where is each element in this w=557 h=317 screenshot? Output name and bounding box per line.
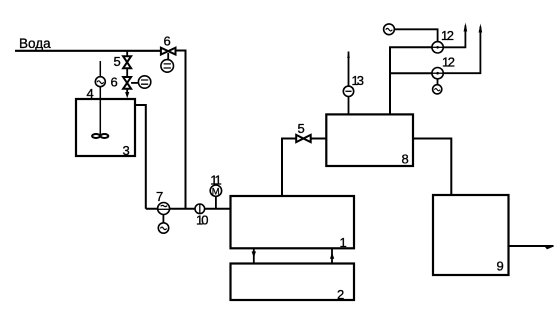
- wire tank 1 top riser to valve 5 right: [282, 139, 296, 197]
- svg-text:7: 7: [156, 189, 163, 204]
- wire riser from tank 8 top with instrument 13: [348, 52, 350, 115]
- label 4: [87, 86, 94, 101]
- wire instrument 12 lower to up arrow (right): [443, 27, 480, 74]
- label 12 lower: [442, 55, 455, 70]
- svg-text:12: 12: [442, 55, 455, 70]
- arrow up (right): [479, 24, 483, 33]
- wire vessel 3 outlet to main pipe: [135, 105, 146, 209]
- wire main horizontal pipe to tank 1: [146, 208, 231, 210]
- wire stub valve 6 to actuator: [167, 53, 169, 60]
- tank 9: [433, 195, 509, 275]
- label 6 (top valve): [164, 34, 171, 49]
- label 12 upper: [441, 28, 454, 43]
- svg-text:12: 12: [441, 28, 454, 43]
- arrow up (left): [464, 23, 468, 32]
- label 13: [352, 73, 364, 88]
- svg-text:6: 6: [111, 75, 118, 90]
- label 5 (right valve): [298, 121, 305, 136]
- instrument 10 (flow device on main pipe): [195, 204, 205, 214]
- instrument actuator circle of valve 6 left: [138, 76, 150, 88]
- arrow into vessel 3: [125, 92, 129, 98]
- instrument tilde circle (top left of 12 group): [384, 24, 395, 35]
- wire header corner riser down to main pipe: [175, 51, 186, 209]
- instrument below 7 (tilde circle): [158, 223, 168, 233]
- arrow tip riser 13: [347, 52, 350, 59]
- wire valve 6 left to its actuator: [131, 82, 138, 84]
- vessel 3 (mixing tank): [76, 99, 135, 156]
- instrument actuator circle of valve 6 top: [161, 60, 174, 73]
- wire tank 9 outlet with arrow: [509, 246, 555, 249]
- motor M4 support line: [99, 61, 101, 136]
- svg-text:2: 2: [337, 287, 344, 302]
- wire stub motor 11 to main pipe: [215, 196, 217, 208]
- svg-text:3: 3: [123, 143, 130, 158]
- instrument 7 (on main pipe): [158, 203, 170, 215]
- motor 4 circle: [95, 77, 105, 87]
- svg-text:M: M: [212, 186, 220, 197]
- label 10: [196, 213, 208, 228]
- label 7: [156, 189, 163, 204]
- label 9: [497, 259, 504, 274]
- valve 6 (top, on water header): [161, 48, 176, 55]
- valve 5 (left, vertical): [123, 56, 131, 68]
- label Вода (water inlet): [19, 36, 51, 51]
- wire feed drop from header to vessel 3: [126, 51, 128, 93]
- svg-text:10: 10: [196, 213, 208, 228]
- label 2: [337, 287, 344, 302]
- wire instrument 12 upper to up arrow: [443, 26, 465, 48]
- label 5 (left valve): [114, 54, 121, 69]
- wire stub below instrument 7: [162, 215, 164, 223]
- wire valve 5 right to tank 8: [311, 138, 327, 140]
- wire connector tank1-tank2 left with arrow: [252, 248, 256, 263]
- svg-text:13: 13: [352, 73, 364, 88]
- agitator impeller: [92, 134, 108, 138]
- svg-text:8: 8: [402, 152, 409, 167]
- label 6 (left valve): [111, 75, 118, 90]
- svg-text:9: 9: [497, 259, 504, 274]
- wire stub below instrument 12 lower: [437, 79, 439, 85]
- label 1: [340, 235, 347, 250]
- tank 8: [326, 114, 413, 166]
- svg-text:5: 5: [298, 121, 305, 136]
- instrument 12 lower: [432, 68, 443, 79]
- wire riser from tank 8 top to instrument 12 upper: [390, 47, 432, 114]
- instrument tilde circle below 12 lower: [433, 85, 442, 94]
- valve 6 (left, vertical): [123, 77, 131, 89]
- valve 5 (right, horizontal): [296, 135, 311, 142]
- label 3: [123, 143, 130, 158]
- wire tank 8 outlet to tank 9: [413, 139, 451, 196]
- label 8: [402, 152, 409, 167]
- instrument 13: [343, 86, 353, 96]
- tank 1: [231, 196, 355, 248]
- wire tilde circle to instrument 12 upper: [394, 29, 437, 41]
- instrument 12 upper: [432, 42, 443, 53]
- svg-text:Вода: Вода: [19, 36, 51, 51]
- wire water header line: [15, 50, 162, 52]
- svg-text:6: 6: [164, 34, 171, 49]
- svg-text:1: 1: [340, 235, 347, 250]
- tank 2: [231, 264, 355, 301]
- motor 11 (M circle): [210, 185, 221, 197]
- label 11: [210, 173, 221, 188]
- wire branch to instrument 12 lower: [390, 72, 432, 74]
- wire connector tank1-tank2 right with arrow: [330, 248, 334, 263]
- svg-text:5: 5: [114, 54, 121, 69]
